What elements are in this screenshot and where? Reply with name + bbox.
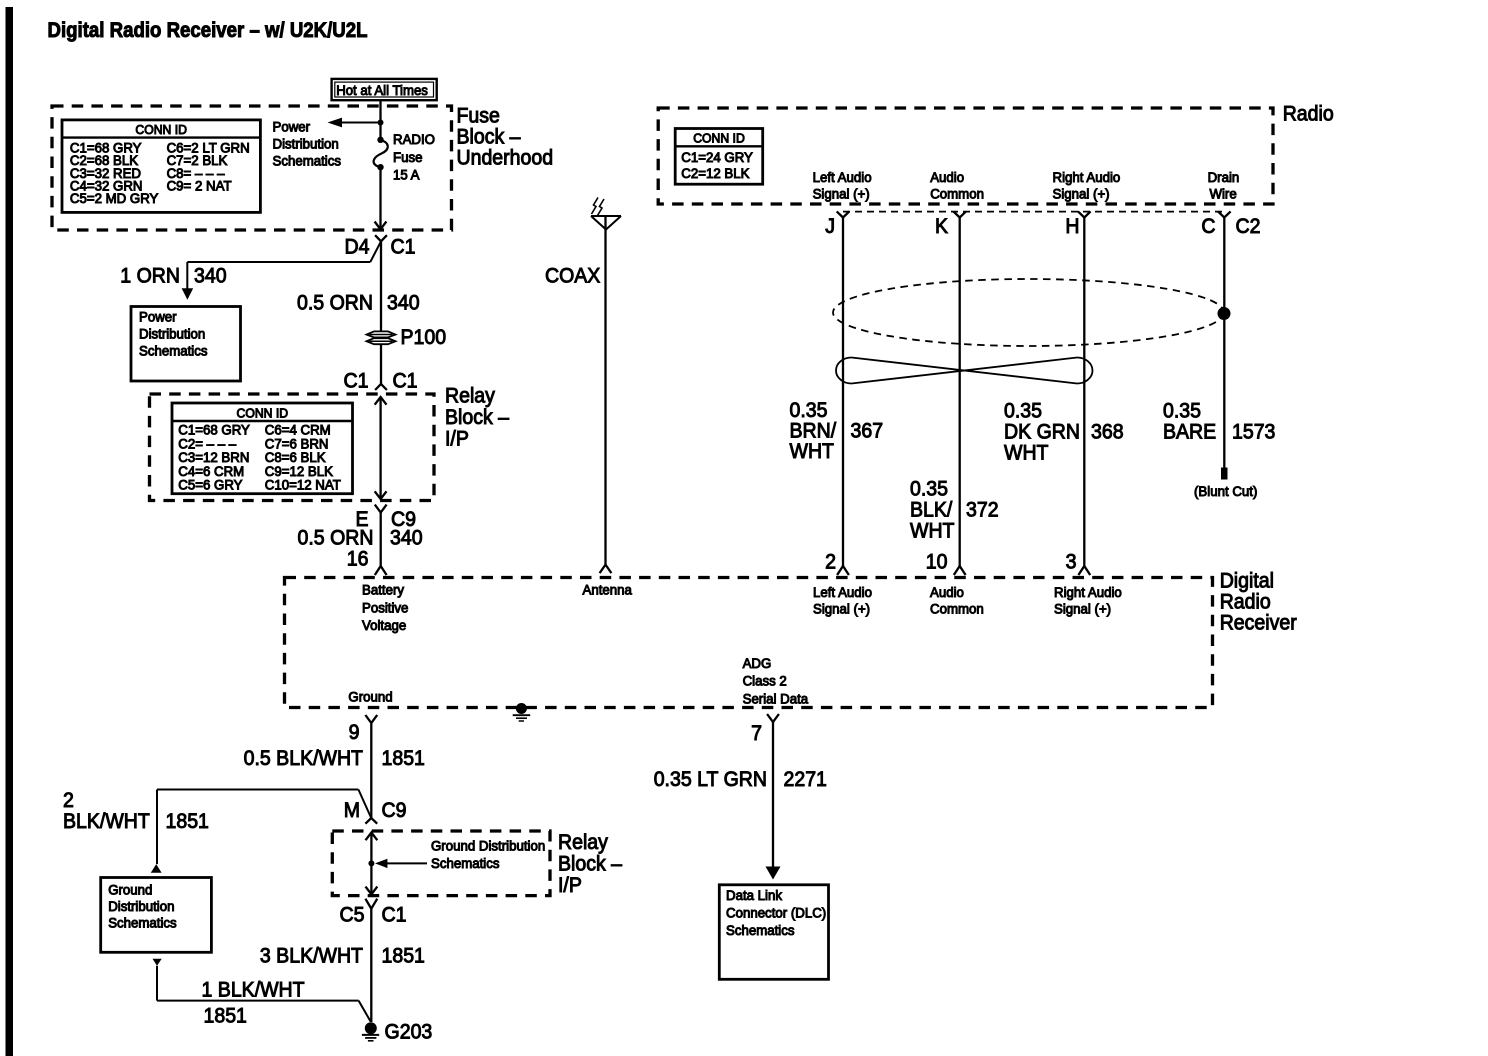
svg-text:Common: Common: [930, 186, 984, 201]
svg-text:C9= 2 NAT: C9= 2 NAT: [167, 179, 232, 194]
svg-text:2271: 2271: [784, 768, 827, 791]
wire: 0.5 ORN 340 to radio receiver pin 16: [375, 513, 387, 576]
svg-text:Signal (+): Signal (+): [813, 186, 870, 201]
title: Digital Radio Receiver - w/ U2K/U2L: [48, 19, 368, 42]
svg-text:I/P: I/P: [558, 874, 582, 897]
svg-text:C10=12 NAT: C10=12 NAT: [265, 478, 341, 493]
connector D4/C1 (fuse block to wire 340): [345, 235, 416, 258]
label: 1 BLK/WHT 1851: [202, 979, 305, 1028]
inline connector P100: [367, 331, 396, 344]
svg-text:C5: C5: [340, 904, 365, 927]
svg-text:CONN ID: CONN ID: [237, 407, 289, 421]
wire: pass-through inside relay block: [375, 397, 387, 499]
label: Ground Distribution Schematics (in relay block): [375, 839, 545, 872]
svg-text:340: 340: [390, 527, 423, 550]
svg-text:368: 368: [1091, 421, 1124, 444]
svg-text:9: 9: [349, 721, 360, 744]
wire: Hot at All Times feed into fuse: [379, 100, 381, 139]
svg-text:367: 367: [851, 420, 884, 443]
label: RADIO Fuse 15 A: [393, 132, 435, 183]
connector C1/C1 (into relay block): [344, 370, 418, 393]
label: 1 ORN 340: [120, 265, 226, 288]
Power Distribution Schematics reference box: [131, 307, 241, 382]
svg-text:Audio: Audio: [930, 170, 964, 185]
svg-text:Right Audio: Right Audio: [1054, 585, 1122, 600]
pin K: [935, 211, 966, 238]
wire: drain wire BARE 1573: [1223, 218, 1225, 468]
blunt cut terminal: [1221, 468, 1228, 480]
radio (dashed block): [658, 108, 1273, 204]
svg-text:Battery: Battery: [362, 583, 404, 598]
label: Power Distribution Schematics (fuse feed): [273, 120, 342, 169]
svg-text:C1: C1: [393, 370, 418, 393]
wire: audio common BLK/WHT 372: [954, 218, 966, 576]
svg-text:Block –: Block –: [445, 406, 509, 429]
svg-text:2: 2: [825, 551, 836, 574]
svg-text:Ground: Ground: [108, 883, 152, 898]
svg-text:340: 340: [194, 265, 227, 288]
pin J: [825, 211, 849, 238]
svg-text:Distribution: Distribution: [108, 899, 174, 914]
relay block - I/P lower (dashed block): [332, 831, 550, 896]
svg-text:C2=12 BLK: C2=12 BLK: [681, 166, 749, 181]
svg-text:Schematics: Schematics: [726, 923, 795, 938]
label: 0.35 BLK/WHT 372: [910, 478, 999, 543]
svg-text:G203: G203: [385, 1021, 433, 1044]
case ground on receiver: [513, 703, 531, 721]
svg-text:CONN ID: CONN ID: [693, 132, 745, 146]
receiver pin labels (top): [362, 583, 1122, 634]
svg-text:(Blunt Cut): (Blunt Cut): [1194, 484, 1257, 499]
fuse block - underhood (dashed block): [52, 106, 452, 230]
svg-text:Drain: Drain: [1208, 170, 1240, 185]
svg-text:2: 2: [63, 789, 74, 812]
svg-text:Block –: Block –: [558, 853, 622, 876]
svg-text:Radio: Radio: [1283, 103, 1334, 126]
twisted pair symbol: [836, 358, 1093, 384]
label: 0.5 ORN 340: [297, 292, 420, 315]
svg-text:Power: Power: [139, 310, 177, 325]
svg-text:Positive: Positive: [362, 600, 408, 615]
svg-text:340: 340: [387, 292, 420, 315]
connector ID table (radio): [675, 129, 763, 185]
label: COAX: [545, 265, 600, 288]
svg-text:I/P: I/P: [445, 428, 469, 451]
svg-text:15 A: 15 A: [393, 168, 420, 183]
connector ID table (fuse block): [62, 120, 260, 212]
label: Digital Radio Receiver: [1220, 570, 1297, 635]
pin H: [1065, 211, 1090, 238]
svg-text:Power: Power: [273, 120, 311, 135]
label: Relay Block - I/P: [558, 831, 622, 897]
wire: 0.5 ORN 340 down to P100: [380, 241, 382, 331]
svg-text:C1=24 GRY: C1=24 GRY: [681, 150, 753, 165]
svg-text:0.5 ORN: 0.5 ORN: [297, 292, 373, 315]
svg-text:1573: 1573: [1232, 421, 1275, 444]
label: 0.35 BARE 1573: [1163, 400, 1275, 444]
label: Hot at All Times: [332, 79, 437, 100]
connector M/C9 (into relay block): [344, 799, 407, 822]
svg-text:M: M: [344, 799, 360, 822]
wire: 340 from P100 to relay block: [375, 344, 387, 390]
svg-text:Ground Distribution: Ground Distribution: [431, 839, 545, 854]
svg-text:Schematics: Schematics: [108, 916, 177, 931]
svg-text:372: 372: [966, 499, 999, 522]
svg-text:C: C: [1201, 215, 1215, 238]
svg-text:BARE: BARE: [1163, 421, 1216, 444]
pin 7: [751, 714, 779, 745]
svg-text:Connector (DLC): Connector (DLC): [726, 906, 826, 921]
connector C5/C1 (relay block output): [340, 899, 407, 927]
label: C2: [1236, 215, 1261, 238]
label: 2 BLK/WHT 1851: [63, 789, 209, 833]
svg-text:BLK/: BLK/: [910, 499, 952, 522]
svg-text:Radio: Radio: [1220, 591, 1271, 614]
svg-text:Underhood: Underhood: [457, 147, 554, 170]
svg-text:0.35 LT GRN: 0.35 LT GRN: [654, 768, 767, 791]
wire: COAX antenna lead: [600, 216, 612, 573]
svg-text:1 BLK/WHT: 1 BLK/WHT: [202, 979, 305, 1002]
svg-text:J: J: [825, 215, 835, 238]
svg-text:P100: P100: [401, 326, 447, 349]
svg-text:Data Link: Data Link: [726, 888, 782, 903]
label: Radio: [1283, 103, 1334, 126]
svg-text:0.5 BLK/WHT: 0.5 BLK/WHT: [244, 747, 364, 770]
svg-text:3: 3: [1066, 551, 1077, 574]
svg-text:Schematics: Schematics: [431, 856, 500, 871]
label: (Blunt Cut): [1194, 484, 1257, 499]
svg-text:Distribution: Distribution: [273, 137, 339, 152]
wire: fuse output D4 with exit arrow: [375, 167, 387, 229]
pin 9: [349, 715, 378, 744]
svg-text:Digital Radio Receiver – w/ U2: Digital Radio Receiver – w/ U2K/U2L: [48, 19, 368, 42]
pin 16: [347, 548, 369, 571]
svg-text:0.35: 0.35: [910, 478, 948, 501]
svg-text:Hot at All Times: Hot at All Times: [336, 82, 428, 98]
Data Link Connector (DLC) Schematics reference box: [719, 885, 828, 980]
label: 3 BLK/WHT 1851: [260, 945, 425, 968]
svg-text:Signal (+): Signal (+): [1054, 602, 1111, 617]
svg-text:WHT: WHT: [790, 440, 835, 463]
svg-text:Class 2: Class 2: [743, 674, 787, 689]
label: 0.35 BRN/WHT 367: [790, 399, 884, 463]
svg-text:C9: C9: [382, 799, 407, 822]
wire: branch 2 BLK/WHT 1851 to ground distribution: [151, 790, 371, 873]
label: 0.5 ORN 340: [298, 527, 423, 550]
label: Fuse Block - Underhood: [457, 105, 554, 170]
svg-text:Left Audio: Left Audio: [813, 585, 872, 600]
wire: branch to Power Distribution Schematics with arrow: [328, 118, 381, 128]
svg-text:1851: 1851: [166, 810, 209, 833]
svg-text:C5=2 MD GRY: C5=2 MD GRY: [70, 191, 159, 206]
svg-text:16: 16: [347, 548, 369, 571]
wire: 0.35 LT GRN 2271 to DLC: [766, 722, 781, 880]
wire: left audio signal BRN/WHT 367: [837, 218, 849, 576]
svg-text:Digital: Digital: [1220, 570, 1274, 593]
svg-text:Block –: Block –: [457, 126, 521, 149]
svg-text:BLK/WHT: BLK/WHT: [63, 810, 150, 833]
junction node on fuse feed: [378, 120, 384, 126]
wire: 0.5 BLK/WHT 1851: [365, 723, 377, 824]
wire: pass-through inside lower relay block: [366, 833, 378, 895]
svg-text:DK GRN: DK GRN: [1004, 421, 1080, 444]
svg-text:H: H: [1065, 215, 1079, 238]
radio pin labels: [813, 170, 1240, 202]
Ground Distribution Schematics reference box: [101, 878, 212, 953]
connector ID table (relay block): [172, 403, 353, 494]
wire: right audio signal DK GRN/WHT 368: [1078, 218, 1090, 576]
connector E/C9 (relay block output): [356, 505, 417, 531]
relay block - I/P (dashed block): [150, 394, 435, 501]
wire: 3 BLK/WHT 1851 to G203: [370, 909, 372, 1022]
node: ground distribution tap: [368, 860, 374, 866]
svg-text:CONN ID: CONN ID: [135, 123, 187, 137]
svg-text:Distribution: Distribution: [139, 327, 205, 342]
svg-text:Voltage: Voltage: [362, 618, 406, 633]
svg-text:ADG: ADG: [743, 656, 772, 671]
svg-text:0.35: 0.35: [1163, 400, 1201, 423]
pin 3: [1066, 551, 1077, 574]
svg-text:Schematics: Schematics: [273, 154, 342, 169]
ground G203: [362, 1022, 379, 1041]
svg-text:Serial Data: Serial Data: [743, 691, 809, 706]
svg-text:COAX: COAX: [545, 265, 600, 288]
label: 0.35 DK GRN/WHT 368: [1004, 400, 1124, 465]
svg-text:1851: 1851: [382, 945, 425, 968]
svg-text:Relay: Relay: [558, 831, 608, 854]
svg-text:Audio: Audio: [930, 585, 964, 600]
svg-text:Common: Common: [930, 602, 984, 617]
svg-text:0.5 ORN: 0.5 ORN: [298, 527, 374, 550]
svg-text:C2: C2: [1236, 215, 1261, 238]
svg-text:Right Audio: Right Audio: [1053, 170, 1121, 185]
svg-text:Signal (+): Signal (+): [1053, 186, 1110, 201]
receiver pin labels (bottom): [348, 656, 808, 706]
svg-text:D4: D4: [345, 236, 370, 259]
svg-text:10: 10: [926, 551, 948, 574]
svg-text:C1: C1: [344, 370, 369, 393]
label: Relay Block - I/P: [445, 385, 509, 451]
wire: branch 1 ORN 340 to Power Distribution Schematics: [182, 241, 381, 299]
fuse: RADIO Fuse 15 A: [374, 137, 388, 171]
svg-text:1 ORN: 1 ORN: [120, 265, 180, 288]
svg-text:WHT: WHT: [1004, 442, 1049, 465]
svg-text:3 BLK/WHT: 3 BLK/WHT: [260, 945, 363, 968]
svg-text:Fuse: Fuse: [457, 105, 500, 128]
svg-text:1851: 1851: [382, 747, 425, 770]
svg-text:Fuse: Fuse: [393, 150, 423, 165]
svg-text:Left Audio: Left Audio: [813, 170, 872, 185]
svg-text:Wire: Wire: [1210, 186, 1237, 201]
label: G203: [385, 1021, 433, 1044]
label: 0.5 BLK/WHT 1851: [244, 747, 425, 770]
svg-text:K: K: [935, 215, 948, 238]
pin 10: [926, 551, 948, 574]
svg-text:0.35: 0.35: [1004, 400, 1042, 423]
svg-text:Relay: Relay: [445, 385, 495, 408]
svg-text:Schematics: Schematics: [139, 344, 208, 359]
wire: branch 1 BLK/WHT 1851 from ground distribution: [153, 959, 371, 1022]
svg-text:Signal (+): Signal (+): [813, 602, 870, 617]
digital radio receiver (dashed block): [285, 578, 1213, 708]
svg-text:C5=6 GRY: C5=6 GRY: [178, 478, 242, 493]
svg-text:1851: 1851: [204, 1005, 247, 1028]
svg-text:7: 7: [751, 722, 762, 745]
pin C: [1201, 211, 1230, 238]
shield (dashed ellipse): [833, 279, 1224, 346]
svg-text:RADIO: RADIO: [393, 132, 435, 147]
svg-text:C1: C1: [382, 904, 407, 927]
node: drain wire to shield: [1218, 307, 1231, 320]
label: 0.35 LT GRN 2271: [654, 768, 827, 791]
svg-text:C1: C1: [391, 236, 416, 259]
svg-text:Receiver: Receiver: [1220, 612, 1297, 635]
svg-text:WHT: WHT: [910, 520, 955, 543]
label: P100: [401, 326, 447, 349]
svg-text:Ground: Ground: [348, 690, 392, 705]
antenna symbol: [591, 198, 621, 230]
radio connector face line C1/C2: [843, 211, 1224, 213]
pin 2: [825, 551, 836, 574]
svg-text:Antenna: Antenna: [583, 583, 633, 598]
